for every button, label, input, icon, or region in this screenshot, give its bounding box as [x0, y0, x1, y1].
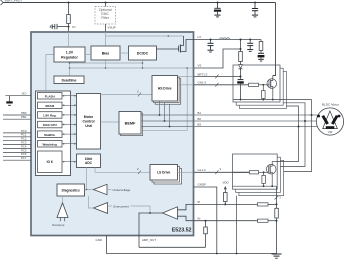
bus arrow 7: [62, 161, 77, 163]
CPU block container: [36, 91, 71, 176]
pin PB0: [3, 114, 31, 116]
block 16bit CPU: [38, 121, 63, 128]
pin PC3: [3, 144, 31, 146]
bus slash BRT: [215, 74, 218, 78]
wire B1 external: [194, 114, 318, 116]
wires amp inputs to IP IN pins: [178, 204, 194, 220]
svg-text:B2: B2: [198, 117, 202, 121]
resistor IP: [258, 203, 269, 206]
svg-text:IO 6: IO 6: [47, 160, 53, 164]
block Watchdog: [38, 141, 63, 148]
resistor LS gate: [249, 171, 258, 174]
supply arrow VDD: [224, 186, 227, 189]
transistor Q2 HS MOSFET: [267, 79, 277, 89]
wire B2 external: [194, 120, 317, 122]
svg-text:IP: IP: [198, 200, 201, 204]
bus arrow 3: [62, 114, 77, 116]
ground at VIO: [9, 96, 11, 102]
bus MCU to HS drive: [101, 94, 153, 96]
pin PC0: [3, 132, 31, 134]
phase wire W: [277, 106, 298, 162]
bus slash shunt 3: [275, 196, 279, 200]
wire overcurrent tap to amp output: [131, 206, 151, 213]
svg-text:RV: RV: [72, 25, 76, 29]
phase wire U: [280, 100, 312, 172]
svg-text:B3: B3: [198, 123, 202, 127]
svg-text:VIO: VIO: [22, 92, 28, 96]
svg-text:GL1-3: GL1-3: [198, 168, 206, 172]
ground snubber: [258, 58, 264, 60]
svg-text:Undervoltage: Undervoltage: [113, 188, 131, 192]
resistor HS gate-source: [262, 91, 266, 99]
junction dot VBAT/EMC: [105, 2, 107, 4]
motor winding U: [322, 115, 329, 125]
wire GH inside box: [247, 84, 249, 86]
wire bias to rail: [105, 60, 107, 68]
internal rail A: [70, 62, 143, 64]
resistor IN: [258, 219, 269, 222]
svg-text:GH1-3: GH1-3: [198, 81, 207, 85]
diode bootstrap: [239, 65, 243, 69]
wire GNDP: [194, 187, 217, 254]
svg-text:VSUP: VSUP: [108, 26, 116, 30]
wire VBAT to EMC filter: [105, 3, 107, 7]
wire LS source rail: [233, 185, 277, 187]
capacitor C2 (electrolytic to ground): [214, 3, 220, 9]
node VBAT rail: [3, 2, 276, 4]
comparator overcurrent: [94, 203, 108, 214]
junction dot node RV/C1: [68, 26, 70, 28]
wire regulator-bias: [85, 54, 91, 56]
capacitor C3 (to ground): [252, 3, 258, 15]
capacitor C5 after inductor: [249, 40, 251, 44]
deadtime block: [54, 76, 84, 84]
svg-text:VDD: VDD: [222, 180, 228, 184]
wire LX node to bootstrap chain: [240, 40, 242, 52]
junction dots BEMF lines: [159, 114, 161, 116]
motor winding W: [326, 126, 335, 128]
optional EMC filter box: [95, 7, 116, 25]
HS drive block: [152, 76, 178, 102]
resistor bootstrap: [239, 52, 243, 62]
wire VBAT into HS drain redraw: [273, 65, 276, 76]
svg-text:B1: B1: [198, 111, 202, 115]
wire AMP_OUT: [139, 246, 206, 248]
wire node to capacitor C1: [57, 26, 69, 28]
wire regulator to left column: [46, 55, 54, 92]
bus arrow 6: [62, 143, 77, 145]
junction dots phases/BEMF: [311, 114, 313, 116]
svg-text:SRAM: SRAM: [45, 104, 54, 108]
svg-text:VS: VS: [198, 64, 202, 68]
pin PC6: [3, 155, 31, 157]
wire ADC to undervoltage node: [86, 168, 88, 190]
capacitor C4 at LX: [210, 40, 212, 44]
svg-text:HS Drive: HS Drive: [158, 87, 172, 91]
LS drive stack back: [154, 169, 182, 185]
HS drive stack back: [155, 79, 181, 105]
svg-text:IN: IN: [198, 216, 201, 220]
wire VSUP EMC filter to IC: [105, 24, 107, 32]
BEMF line B3 inside: [141, 126, 194, 128]
resistor HS gate: [249, 83, 259, 86]
wire VS sense to mux: [141, 68, 187, 130]
wire GH: [194, 84, 249, 86]
svg-text:1.3V: 1.3V: [66, 51, 74, 55]
ground C3: [252, 15, 258, 17]
transistor Q1 dcdc switch: [157, 36, 194, 53]
pin PC2: [3, 140, 31, 142]
block MultDiv: [38, 131, 63, 138]
dcdc block: [129, 46, 157, 60]
LS drive block: [150, 165, 178, 181]
LS FET stack back: [239, 160, 284, 195]
svg-text:BEMF: BEMF: [125, 122, 136, 126]
wire VS: [194, 49, 241, 68]
block FLASH: [38, 93, 63, 100]
svg-text:Motor: Motor: [84, 115, 94, 119]
wire dcdc to rail: [142, 60, 144, 68]
HS FET stack mid: [236, 68, 283, 105]
BLDC motor circle: [316, 108, 343, 135]
wire LS drive to pin GL: [178, 171, 194, 173]
transistor Q3 LS MOSFET: [266, 164, 276, 174]
svg-text:GND: GND: [96, 238, 102, 242]
bus slash 2: [138, 93, 141, 97]
wire LX: [194, 39, 262, 41]
wire GL: [194, 171, 250, 173]
BEMF line B2 inside: [141, 120, 194, 122]
motor winding triangle: [323, 111, 338, 129]
internal rail B / VS net: [70, 67, 194, 69]
motor terminal left: [317, 115, 320, 118]
comparator undervoltage: [94, 184, 108, 194]
bus arrow 4: [62, 124, 77, 126]
junction dot C3: [254, 2, 256, 4]
snubber C electrolytic: [258, 52, 264, 54]
diagnostics block: [57, 184, 85, 196]
ground main: [272, 254, 282, 258]
svg-text:Unit: Unit: [85, 124, 92, 128]
block IO 6: [38, 151, 63, 173]
resistor VDD pullup: [224, 193, 228, 202]
wire regulator to deadtime: [69, 62, 71, 76]
pin PC7: [3, 159, 31, 161]
LS FET stack mid: [236, 157, 281, 192]
svg-text:Filter: Filter: [101, 16, 109, 20]
bus arrow 2: [62, 104, 77, 106]
bus arrow 5: [62, 133, 77, 135]
BEMF block shadow: [121, 113, 143, 136]
svg-text:Overtemp.: Overtemp.: [52, 223, 65, 227]
svg-text:FLASH: FLASH: [45, 94, 55, 98]
wires HS drive outputs to pins: [178, 77, 194, 85]
wire amp output to AMP_OUT pin: [139, 213, 163, 247]
wire BRT: [194, 76, 241, 78]
BEMF line B1 inside: [141, 114, 194, 116]
net connector VBAT chevron: [1, 0, 4, 5]
capacitor bootstrap: [238, 79, 244, 81]
wire VBAT-R node into regulator: [68, 32, 70, 47]
junction dot C2: [217, 2, 219, 4]
phase wire V: [280, 103, 305, 167]
BEMF block: [119, 112, 141, 135]
op-amp current sense: [163, 207, 178, 219]
resistor shunt: [275, 208, 279, 218]
svg-text:PC7: PC7: [21, 156, 27, 160]
svg-text:AMP_OUT: AMP_OUT: [142, 238, 156, 242]
svg-text:BLDC Motor: BLDC Motor: [322, 102, 339, 106]
comparator overtemp: [57, 203, 68, 218]
svg-text:Control: Control: [82, 119, 94, 123]
svg-text:Diagnostics: Diagnostics: [62, 188, 80, 192]
ground C2: [214, 15, 220, 17]
svg-text:GNDP: GNDP: [198, 182, 206, 186]
svg-text:16bit CPU: 16bit CPU: [43, 123, 57, 127]
bias block: [91, 46, 120, 60]
LS drive stack mid: [152, 167, 180, 183]
wire MCU to BEMF: [101, 121, 120, 123]
wire GL inside: [233, 171, 250, 173]
pin PC5: [3, 151, 31, 153]
junction dot VBAT/RV: [68, 2, 70, 4]
svg-text:Bias: Bias: [102, 51, 110, 55]
svg-text:LS Drive: LS Drive: [157, 171, 171, 175]
ground (left of C1): [50, 24, 52, 28]
svg-text:VBAT_PROT: VBAT_PROT: [5, 0, 23, 2]
resistor RV: [67, 15, 71, 24]
block 1.8V Reg.: [38, 112, 63, 119]
svg-text:MultDiv: MultDiv: [44, 133, 55, 137]
svg-text:E523.52: E523.52: [172, 227, 192, 233]
wire IN: [194, 220, 258, 222]
junction dots internal rails: [69, 62, 71, 64]
wire IP: [194, 203, 258, 205]
resistor feedback: [205, 220, 207, 222]
wire B3 external: [194, 126, 318, 128]
pin PC1: [3, 136, 31, 138]
resistor LS gate-source: [262, 175, 266, 183]
shunt branch down: [276, 186, 278, 204]
pin PB1: [3, 118, 31, 120]
wire bias-dcdc: [120, 52, 129, 54]
svg-text:Watchdog: Watchdog: [43, 142, 58, 146]
adc block: [77, 154, 101, 168]
LS FET stack front: [233, 154, 278, 189]
wire LS stack to GND: [236, 196, 238, 254]
svg-text:Regulator: Regulator: [61, 56, 78, 60]
pin PC4: [3, 148, 31, 150]
svg-text:Overcurrent: Overcurrent: [113, 204, 129, 208]
svg-text:Deadtime: Deadtime: [62, 78, 77, 82]
svg-text:DC/DC: DC/DC: [137, 51, 149, 55]
internal supply rail from VSUP: [106, 32, 184, 46]
snubber R at LX end: [260, 40, 262, 42]
HS drive stack mid: [154, 77, 180, 103]
wire VBAT to resistor: [68, 3, 70, 15]
block SRAM: [38, 102, 63, 109]
wire HS drain: [272, 76, 274, 79]
inductor L1: [220, 38, 230, 40]
regulator U 1.3V: [54, 47, 85, 62]
wire diagnostics to undervoltage: [85, 189, 94, 191]
capacitor C1: [52, 24, 57, 29]
motor winding V: [331, 115, 338, 125]
pin VIO line: [6, 95, 32, 97]
motor control unit: [77, 94, 101, 150]
svg-text:UW: UW: [328, 130, 333, 134]
HS FET stack back: [239, 71, 286, 108]
HS FET stack front: [233, 65, 280, 102]
wire VBAT rail turns down to HS FET drains: [273, 3, 276, 76]
bus slash GL: [215, 170, 218, 174]
IC E523.52 body: [31, 32, 194, 236]
bus ADC to LS drive: [95, 168, 150, 173]
wire GND: [107, 236, 277, 254]
svg-text:ADC: ADC: [85, 161, 93, 165]
svg-text:LX: LX: [198, 35, 202, 39]
wires HS drive to BEMF lines: [160, 101, 170, 127]
motor terminal right: [338, 115, 341, 118]
bus slash LS: [138, 170, 141, 174]
svg-text:PB1: PB1: [21, 115, 27, 119]
bus slash GH: [215, 83, 218, 87]
wire LS drain to phase: [271, 162, 273, 165]
svg-text:1.8V Reg.: 1.8V Reg.: [43, 114, 57, 118]
bus arrow 1: [62, 95, 77, 97]
svg-text:BRT1-3: BRT1-3: [198, 72, 208, 76]
wire HS source rail: [233, 99, 280, 101]
